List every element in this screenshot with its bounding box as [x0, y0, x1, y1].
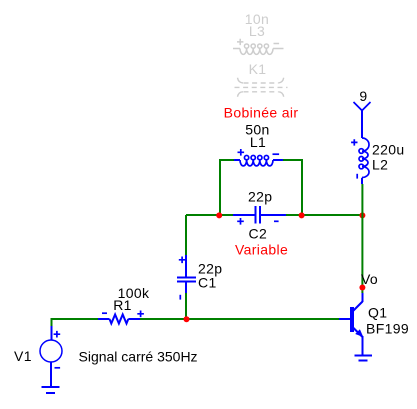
- svg-text:L2: L2: [372, 157, 388, 173]
- wire C1 branch lower: [185, 293, 187, 319]
- source V1: [40, 326, 62, 386]
- svg-text:C1: C1: [198, 275, 217, 291]
- wire tank left vertical: [220, 160, 234, 215]
- svg-text:BF199: BF199: [366, 321, 409, 337]
- wire tank right vertical: [283, 160, 302, 215]
- svg-text:22p: 22p: [248, 189, 272, 205]
- resistor R1: [98, 311, 144, 324]
- svg-text:C2: C2: [249, 226, 268, 242]
- wire R1 to base: [140, 318, 339, 320]
- supply node 9: [354, 102, 371, 138]
- svg-text:Bobinée air: Bobinée air: [224, 105, 299, 121]
- inductor L2: [351, 138, 369, 184]
- svg-text:Q1: Q1: [368, 305, 387, 321]
- transistor Q1: [339, 293, 363, 355]
- inductor L3 (ghost): [233, 39, 284, 55]
- svg-text:L3: L3: [249, 23, 265, 39]
- junction L2 branch: [359, 212, 365, 218]
- wire C1 branch upper: [185, 215, 187, 255]
- svg-text:Variable: Variable: [235, 242, 288, 258]
- ground (Q1): [355, 356, 373, 361]
- svg-text:V1: V1: [14, 348, 32, 364]
- wire V1 riser and main horizontal: [52, 319, 99, 326]
- wire L2 to collector: [361, 184, 363, 293]
- junction tank-right: [299, 212, 305, 218]
- junction C1/main wire: [184, 316, 190, 322]
- svg-text:220u: 220u: [372, 142, 405, 158]
- svg-text:K1: K1: [249, 61, 267, 77]
- node Vo: [359, 285, 365, 291]
- svg-text:L1: L1: [250, 134, 266, 150]
- coupling K1 (ghost): [235, 78, 288, 97]
- emitter arrow Q1: [355, 329, 363, 337]
- capacitor C1: [177, 255, 196, 300]
- svg-text:Signal carré 350Hz: Signal carré 350Hz: [79, 349, 198, 365]
- svg-text:9: 9: [359, 88, 367, 104]
- inductor L1: [234, 149, 283, 166]
- svg-text:Vo: Vo: [361, 271, 378, 287]
- ground (V1): [42, 387, 60, 393]
- junction tank-left: [216, 212, 222, 218]
- svg-text:R1: R1: [113, 297, 132, 313]
- wire top horizontal (C2 to L2 branch): [286, 214, 362, 216]
- capacitor C2: [233, 206, 286, 225]
- wire top horizontal (C1 branch to C2): [186, 214, 233, 216]
